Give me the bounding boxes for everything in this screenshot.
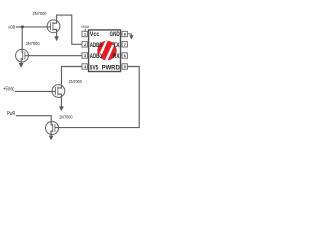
pin 3 box <box>82 53 89 58</box>
wire Q4 drain lead <box>51 122 53 125</box>
transistor Q4 2N7000 (mirrored) <box>46 122 59 135</box>
wire Q2 drain lead <box>21 50 24 53</box>
ground arrow Q1 <box>54 36 59 41</box>
wire PwR to Q4 drain <box>16 116 51 122</box>
pin 6 box <box>121 53 128 58</box>
svg-text:PWRD: PWRD <box>102 64 121 71</box>
svg-text:2N7000: 2N7000 <box>69 79 82 85</box>
wire Q1 drain to pin 2 <box>53 15 82 44</box>
wire Q4 source <box>51 131 53 136</box>
pin 4 box <box>82 64 89 69</box>
svg-text:5: 5 <box>124 65 126 69</box>
transistor Q1 2N7000 <box>47 20 60 33</box>
wire +5Vdc stub to pin 1 <box>84 29 86 32</box>
pin 1 box <box>82 31 89 36</box>
ground arrow Q3 <box>59 106 64 111</box>
svg-text:+5Vdc: +5Vdc <box>81 24 90 29</box>
wire Q2 source <box>21 59 23 64</box>
wire Q3 drain lead <box>58 85 62 88</box>
svg-text:2N7000: 2N7000 <box>26 41 40 47</box>
svg-text:TX: TX <box>113 42 121 49</box>
svg-text:ADB5: ADB5 <box>90 42 102 49</box>
wire pin 8 to ground <box>127 34 131 36</box>
transistor Q2 2N7000 (mirrored) <box>16 49 29 62</box>
wire pin 4 to Q3 drain <box>62 67 83 85</box>
wire pin 5 to Q4 gate <box>55 67 139 128</box>
pin 7 box <box>121 42 128 47</box>
wire +5Vdc to Q3 gate <box>15 90 56 92</box>
svg-text:+5Vdc: +5Vdc <box>3 86 15 92</box>
svg-text:1: 1 <box>84 33 86 37</box>
svg-text:7: 7 <box>124 43 126 47</box>
svg-text:2: 2 <box>84 43 86 47</box>
Microchip logo <box>97 41 116 62</box>
pin 8 box <box>121 31 128 36</box>
junction ADB node <box>21 25 24 28</box>
ground arrow Q4 <box>49 136 54 141</box>
svg-text:2N7000: 2N7000 <box>33 11 47 17</box>
wire ADB vertical to Q2 drain <box>21 27 23 50</box>
IC U1 body <box>89 30 121 72</box>
svg-text:PwR: PwR <box>7 111 16 117</box>
wire ADB horizontal <box>16 26 51 28</box>
svg-text:8: 8 <box>124 33 126 37</box>
ground arrow at pin 8 <box>129 35 133 39</box>
svg-text:3: 3 <box>84 54 86 58</box>
wire Q2 gate to pin 3 <box>25 55 82 57</box>
svg-text:6: 6 <box>124 54 126 58</box>
pin 5 box <box>121 64 128 69</box>
ground arrow Q2 <box>19 63 24 68</box>
svg-text:5V5: 5V5 <box>90 64 99 71</box>
transistor Q3 2N7000 <box>52 85 65 98</box>
wire Q1 source <box>53 29 57 37</box>
svg-text:Vcc: Vcc <box>90 31 100 38</box>
svg-text:GND: GND <box>110 31 121 38</box>
pin 2 box <box>82 42 89 47</box>
wire Q3 source to ground <box>58 94 62 107</box>
svg-text:RX: RX <box>113 53 121 60</box>
svg-text:ADB: ADB <box>8 25 15 31</box>
svg-text:ADB0: ADB0 <box>90 53 102 60</box>
svg-text:2N7000: 2N7000 <box>59 115 73 121</box>
